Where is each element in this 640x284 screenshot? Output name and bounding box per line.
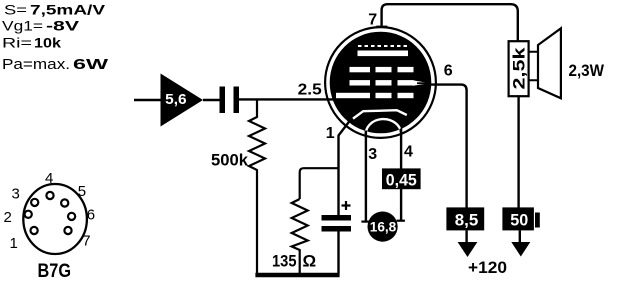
tube grid3 dotted line [358, 45, 408, 47]
speaker [529, 28, 561, 98]
svg-text:8,5: 8,5 [455, 211, 479, 230]
wire input left [134, 99, 161, 102]
resistor 135 ohm cathode [292, 199, 308, 274]
svg-text:Ω: Ω [303, 251, 317, 270]
svg-text:500k: 500k [211, 151, 249, 170]
capacitor C1 coupling [220, 87, 240, 114]
svg-text:-8V: -8V [46, 18, 80, 34]
svg-text:10k: 10k [34, 35, 61, 51]
label ohm [303, 251, 317, 270]
parameter label S=7,5mA/V [4, 2, 106, 18]
svg-text:5: 5 [78, 183, 86, 200]
svg-text:7: 7 [82, 232, 90, 249]
svg-text:6: 6 [87, 207, 95, 224]
socket pin 5 [61, 199, 68, 206]
tube anode bar [358, 51, 409, 57]
svg-text:Pa=max.: Pa=max. [2, 57, 70, 73]
svg-text:7,5mA/V: 7,5mA/V [30, 2, 106, 18]
wire cathode pin1 down and branch [300, 119, 352, 216]
label pin 7 [368, 11, 377, 28]
input source triangle 5,6 [161, 74, 204, 127]
socket label 6 [87, 207, 95, 224]
wire transformer to supply [517, 96, 519, 208]
socket label 5 [78, 183, 86, 200]
label 500k [211, 151, 249, 170]
wire heater pin 4 [397, 129, 405, 221]
svg-text:6W: 6W [73, 57, 109, 73]
wire heater pin 3 [361, 131, 372, 222]
svg-text:2.5: 2.5 [298, 82, 322, 99]
svg-text:1: 1 [326, 125, 335, 142]
parameter label Pa=max.6W [2, 57, 109, 73]
tube V1 inner disc [330, 32, 432, 134]
box 50 anode current [502, 207, 539, 230]
svg-text:Vg1=: Vg1= [2, 18, 43, 34]
svg-text:50: 50 [510, 211, 528, 230]
socket pin 4 [46, 192, 53, 199]
svg-text:2,5k: 2,5k [511, 46, 529, 89]
box 0,45 heater current [382, 168, 421, 189]
socket label 4 [45, 170, 53, 187]
plus sign polarity [342, 201, 351, 210]
label 135 [272, 251, 297, 270]
tube V1 envelope [325, 27, 436, 138]
wire anode pin 7 to transformer [382, 4, 518, 41]
socket pin 7 [64, 227, 71, 234]
label 2.5 grid [298, 82, 322, 99]
socket pin 2 [25, 211, 32, 218]
anode pin tick [376, 26, 387, 28]
svg-text:4: 4 [45, 170, 53, 187]
tube grid row 2 screen [350, 80, 432, 86]
parameter label Vg1=-8V [2, 18, 80, 34]
svg-text:Ri=: Ri= [2, 35, 32, 51]
label B7G [38, 261, 72, 282]
box 8,5 screen current [446, 207, 484, 230]
svg-text:0,45: 0,45 [386, 170, 417, 189]
label 2,3W [569, 61, 605, 80]
ground rail bottom [255, 273, 339, 277]
socket label 1 [10, 235, 18, 252]
resistor 500k grid leak [249, 99, 265, 273]
svg-text:135: 135 [272, 251, 297, 270]
svg-text:2,3W: 2,3W [569, 61, 605, 80]
svg-text:4: 4 [404, 144, 413, 161]
svg-text:S=: S= [4, 2, 27, 18]
wire C1 to control grid [239, 98, 336, 100]
svg-text:7: 7 [368, 11, 377, 28]
socket label 3 [12, 186, 20, 203]
socket label 2 [4, 209, 12, 226]
label pin 1 [326, 125, 335, 142]
svg-text:+120: +120 [468, 259, 507, 277]
svg-text:6: 6 [444, 63, 453, 80]
svg-text:16,8: 16,8 [370, 219, 397, 234]
label pin 6 [444, 63, 453, 80]
tube heater arc [366, 119, 401, 136]
transformer primary 2,5k [509, 41, 529, 96]
svg-text:5,6: 5,6 [165, 91, 187, 108]
tube cathode line [353, 110, 407, 118]
svg-text:1: 1 [10, 235, 18, 252]
svg-text:2: 2 [4, 209, 12, 226]
wire triangle to coupling cap [203, 99, 220, 101]
socket pin 3 [31, 199, 38, 206]
svg-text:3: 3 [12, 186, 20, 203]
arrow supply screen [458, 230, 478, 257]
socket pin 6 [68, 213, 75, 220]
svg-text:B7G: B7G [38, 261, 72, 282]
wire screen grid pin 6 [430, 85, 467, 208]
socket pin 1 [30, 227, 37, 234]
arrow supply anode [511, 230, 530, 256]
parameter label Ri=10k [2, 35, 61, 51]
svg-text:3: 3 [368, 146, 377, 163]
socket label 7 [82, 232, 90, 249]
label +120 [468, 259, 507, 277]
meter 16,8 heater [368, 212, 398, 242]
label pin 3 [368, 146, 377, 163]
label pin 4 [404, 144, 413, 161]
tube grid row 1 [350, 67, 414, 72]
tube grid row 3 control [336, 93, 414, 98]
socket B7G outline [23, 184, 87, 254]
capacitor electrolytic cathode bypass [322, 215, 352, 274]
